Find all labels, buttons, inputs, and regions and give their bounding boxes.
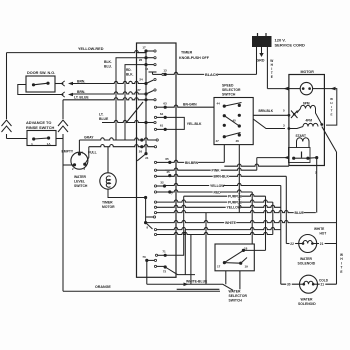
svg-text:BRN.: BRN. bbox=[77, 90, 85, 94]
svg-text:61: 61 bbox=[160, 124, 164, 128]
terminal 30 bbox=[281, 283, 300, 285]
hot water solenoid bbox=[299, 235, 317, 253]
svg-text:BLK.: BLK. bbox=[104, 60, 112, 64]
svg-text:TIMER: TIMER bbox=[102, 201, 113, 205]
harness chevrons on left border wire bbox=[1, 119, 12, 134]
svg-text:46: 46 bbox=[236, 139, 240, 143]
svg-text:45: 45 bbox=[166, 170, 170, 174]
wire BLUE row to motor 2 bbox=[154, 212, 156, 214]
svg-text:30: 30 bbox=[287, 283, 291, 287]
svg-text:RD.: RD. bbox=[126, 68, 132, 72]
svg-text:65: 65 bbox=[165, 157, 169, 161]
terminal 8 bbox=[144, 221, 147, 224]
svg-text:ORANGE: ORANGE bbox=[95, 285, 111, 289]
lt-blue-2 contact bbox=[144, 121, 147, 124]
svg-text:PINK: PINK bbox=[212, 169, 221, 173]
svg-text:13: 13 bbox=[163, 69, 167, 73]
svg-text:GRD: GRD bbox=[257, 59, 265, 63]
wire: timer motor top bbox=[107, 147, 109, 173]
svg-text:64: 64 bbox=[160, 112, 164, 116]
label BLACK bbox=[204, 72, 217, 76]
wire WHITE row bbox=[146, 220, 337, 222]
svg-text:26: 26 bbox=[139, 149, 143, 153]
wire PURPLE2 drop bbox=[272, 202, 274, 234]
wire YEL-BLK jumper loop bbox=[165, 117, 184, 129]
wire: timer motor bottom return bbox=[108, 189, 146, 197]
wire PURPLE row 2 bbox=[154, 201, 156, 203]
wire RED row bbox=[170, 190, 252, 192]
vertical rail: lt-blue / rinse / empty / orange bbox=[62, 100, 64, 291]
wire BRN-BLK row bbox=[154, 175, 156, 177]
wire ORANGE bottom run bbox=[63, 290, 220, 292]
rail bottom dot and cam blade bbox=[144, 152, 147, 155]
svg-text:70: 70 bbox=[142, 255, 146, 259]
svg-text:BLUE: BLUE bbox=[295, 211, 305, 215]
wire: rinse switch to vertical rail bbox=[56, 138, 63, 140]
svg-text:MOTOR: MOTOR bbox=[102, 205, 115, 209]
svg-text:71: 71 bbox=[162, 250, 166, 254]
svg-text:EMPTY: EMPTY bbox=[62, 149, 74, 153]
svg-text:SOLENOID: SOLENOID bbox=[298, 262, 316, 266]
wire 47 drop bbox=[223, 145, 225, 163]
motor protector circle bbox=[300, 82, 312, 94]
centrifugal switch bbox=[292, 157, 295, 160]
wire 70 drop to white-blue row bbox=[146, 260, 148, 284]
svg-text:SERVICE CORD: SERVICE CORD bbox=[275, 43, 305, 48]
start switch inner box bbox=[289, 148, 311, 163]
svg-text:WHITE: WHITE bbox=[225, 221, 237, 225]
svg-text:WATER: WATER bbox=[300, 257, 313, 261]
ground arrow bbox=[261, 47, 263, 54]
wire 71 riser to purple row bbox=[165, 196, 184, 255]
svg-text:SELECTOR: SELECTOR bbox=[229, 294, 248, 298]
svg-text:LT.: LT. bbox=[99, 113, 104, 117]
svg-text:72: 72 bbox=[163, 270, 167, 274]
wire YELLOW2 drop to cold solenoid 30 bbox=[280, 186, 282, 285]
timer motor return dot bbox=[144, 196, 147, 199]
water selector switch box bbox=[215, 244, 254, 271]
svg-text:SWITCH: SWITCH bbox=[74, 184, 88, 188]
svg-text:BLUE: BLUE bbox=[99, 117, 109, 121]
svg-text:PURPLE: PURPLE bbox=[228, 195, 242, 199]
svg-text:TIMER: TIMER bbox=[181, 51, 193, 55]
svg-text:RED: RED bbox=[214, 190, 222, 194]
terminal 14 bbox=[144, 63, 147, 66]
wire: door switch top to connector bbox=[55, 83, 63, 85]
svg-text:SWITCH: SWITCH bbox=[222, 93, 236, 97]
terminal 22 bbox=[286, 243, 299, 245]
wire white diagonal to solenoid rail bbox=[322, 127, 337, 153]
wire row 234.5 bbox=[154, 233, 156, 235]
svg-text:WATER: WATER bbox=[229, 289, 242, 293]
wire RED drop to selector box bbox=[251, 192, 253, 244]
water level switch circle bbox=[71, 152, 88, 169]
svg-text:BN-BRN: BN-BRN bbox=[185, 161, 199, 165]
wire PINK bbox=[165, 168, 257, 170]
svg-text:32: 32 bbox=[160, 181, 164, 185]
wire BN-BRN (65) bbox=[170, 160, 225, 162]
wire 18 to purple riser bbox=[243, 249, 265, 251]
svg-text:LEVEL: LEVEL bbox=[74, 180, 85, 184]
svg-text:SPEED: SPEED bbox=[222, 83, 234, 87]
svg-text:4PM: 4PM bbox=[306, 118, 313, 122]
svg-text:RINSE SWITCH: RINSE SWITCH bbox=[26, 125, 55, 130]
wire 72 diagonal bbox=[165, 267, 195, 275]
svg-text:BRN-BLK: BRN-BLK bbox=[259, 109, 274, 113]
svg-text:PURPLE: PURPLE bbox=[228, 200, 242, 204]
svg-text:BRN.: BRN. bbox=[77, 79, 85, 83]
motor box bbox=[289, 75, 325, 166]
svg-text:47: 47 bbox=[216, 139, 220, 143]
svg-text:YEL-BLK: YEL-BLK bbox=[187, 122, 202, 126]
speed selector switch box bbox=[214, 98, 253, 145]
advance-to-rinse switch box bbox=[27, 131, 56, 146]
svg-text:ADVANCE TO: ADVANCE TO bbox=[26, 120, 51, 125]
cold water solenoid bbox=[300, 275, 318, 293]
svg-text:21: 21 bbox=[320, 242, 324, 246]
timer motor contact dot bbox=[140, 145, 143, 148]
wire LT-BLUE second to timer bbox=[102, 120, 146, 122]
terminal 21 (cold) bbox=[317, 283, 336, 285]
svg-text:14: 14 bbox=[145, 67, 149, 71]
svg-text:24: 24 bbox=[139, 78, 143, 82]
wire row 289.3 bbox=[177, 288, 220, 290]
svg-text:BLK.: BLK. bbox=[126, 73, 134, 77]
svg-text:17: 17 bbox=[142, 46, 146, 50]
svg-text:24: 24 bbox=[145, 156, 149, 160]
svg-text:6PM: 6PM bbox=[303, 102, 310, 106]
wire WHITE-BLUE row bbox=[147, 284, 233, 290]
wire LT. BLUE: to timer bbox=[63, 98, 146, 100]
svg-text:WATER: WATER bbox=[301, 298, 314, 302]
svg-text:WHITE: WHITE bbox=[314, 227, 324, 231]
svg-text:SELECTOR: SELECTOR bbox=[222, 88, 241, 92]
wire PURPLE row 1 bbox=[184, 194, 266, 196]
wire row 166 bbox=[224, 164, 289, 166]
wire YELLOW-RED: top run and left border drop bbox=[7, 50, 147, 52]
svg-text:E: E bbox=[340, 270, 342, 274]
wire RD-BLK vertical bbox=[125, 65, 146, 140]
lt-blue contact bbox=[144, 98, 147, 101]
wire WHITE: service cord down to motor bbox=[266, 47, 268, 89]
svg-text:BRN-BLK: BRN-BLK bbox=[214, 175, 230, 179]
wire YELLOW row bbox=[165, 183, 281, 185]
svg-text:HOT: HOT bbox=[320, 231, 327, 235]
svg-text:SWITCH: SWITCH bbox=[229, 299, 243, 303]
terminal 21 bbox=[317, 243, 337, 245]
svg-text:63: 63 bbox=[163, 102, 167, 106]
svg-text:26: 26 bbox=[139, 58, 143, 62]
svg-text:BLACK: BLACK bbox=[205, 73, 219, 77]
svg-text:KNOB-PUSH OFF: KNOB-PUSH OFF bbox=[179, 56, 210, 60]
svg-text:E: E bbox=[271, 75, 273, 79]
wire: left border to rinse switch bbox=[7, 138, 28, 140]
harness chevrons on rail bbox=[58, 119, 69, 134]
svg-text:YELLOW: YELLOW bbox=[210, 184, 225, 188]
wire: empty contact to rail bbox=[63, 164, 75, 166]
wire to motor 4 bbox=[256, 158, 258, 171]
wire BRN bottom: connector to timer bbox=[73, 92, 146, 94]
wire BLACK: service cord to timer terminal 13 bbox=[256, 47, 258, 74]
wire: full contact riser bbox=[85, 147, 89, 165]
timer internal rail bbox=[145, 51, 147, 154]
wire BN-GRN to speed selector bbox=[165, 105, 214, 107]
svg-text:22: 22 bbox=[290, 242, 294, 246]
svg-text:WHITE-BLUE: WHITE-BLUE bbox=[186, 280, 208, 284]
wire BRN-BLK drop to hot solenoid 22 bbox=[285, 176, 287, 243]
svg-text:WATER: WATER bbox=[74, 175, 87, 179]
wire selector diagonal to motor 3 bbox=[253, 119, 285, 129]
timer motor circle bbox=[100, 173, 116, 189]
wire GRAY: wls top to timer bbox=[78, 140, 80, 154]
svg-text:LT. BLUE: LT. BLUE bbox=[74, 95, 89, 99]
svg-text:GRAY: GRAY bbox=[84, 136, 94, 140]
wire PURPLE1 drop to selector 18 bbox=[265, 196, 267, 250]
wire white loop right of motor bbox=[324, 89, 336, 126]
svg-text:21: 21 bbox=[321, 283, 325, 287]
wire BLK-BLU vertical bbox=[116, 58, 146, 140]
wire YELLOW row 2 bbox=[154, 206, 156, 208]
120V service cord plug bbox=[252, 36, 272, 47]
wire riser x206 bbox=[205, 213, 207, 285]
wire row 229.6 bbox=[154, 229, 156, 231]
svg-text:19: 19 bbox=[245, 265, 249, 269]
svg-text:BLU.: BLU. bbox=[104, 65, 112, 69]
svg-text:27: 27 bbox=[137, 88, 141, 92]
wire: full/timer-motor row bbox=[89, 144, 155, 146]
wire 46 drop to blue row bbox=[238, 145, 240, 213]
svg-text:MOTOR: MOTOR bbox=[301, 70, 315, 74]
contact bar for 14 bbox=[149, 71, 157, 73]
svg-text:44: 44 bbox=[217, 101, 221, 105]
svg-text:BN-GRN: BN-GRN bbox=[183, 102, 197, 106]
svg-text:YELLOW-RED: YELLOW-RED bbox=[78, 47, 104, 51]
timer box bbox=[137, 43, 177, 277]
wire: door switch loop to lower connector bbox=[18, 85, 64, 95]
wire riser x185.3 bbox=[184, 230, 186, 275]
wire 17 drop to white-blue bbox=[225, 271, 227, 285]
terminal 4 link bbox=[308, 157, 317, 160]
wire 19 drop bbox=[239, 271, 241, 290]
timer cam blade diagonal bbox=[126, 102, 143, 123]
svg-text:17: 17 bbox=[217, 265, 221, 269]
gray contact dot bbox=[140, 138, 143, 141]
connector arrows BRN wires bbox=[62, 81, 65, 86]
svg-text:SOLENOID: SOLENOID bbox=[298, 302, 316, 306]
wire BRN-BLK selector to motor 5 bbox=[253, 114, 287, 116]
svg-text:FULL: FULL bbox=[88, 151, 97, 155]
svg-text:DOOR SW. N.O.: DOOR SW. N.O. bbox=[27, 71, 55, 75]
wire BRN top: connector to timer bbox=[73, 81, 146, 83]
wire riser x190.9 bbox=[190, 235, 192, 285]
svg-text:E: E bbox=[330, 113, 332, 117]
